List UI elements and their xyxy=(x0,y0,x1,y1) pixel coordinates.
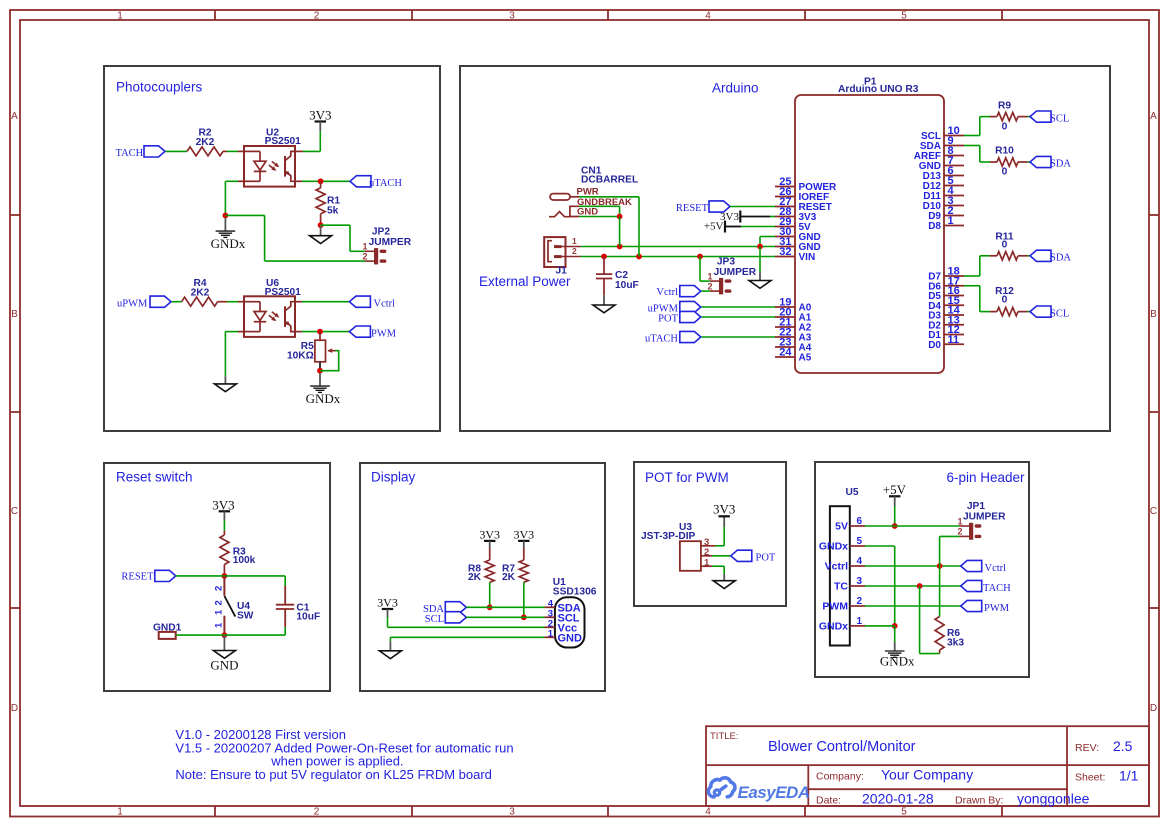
svg-text:1: 1 xyxy=(572,236,577,246)
svg-text:10KΩ: 10KΩ xyxy=(287,351,314,362)
svg-text:U5: U5 xyxy=(846,487,859,498)
svg-text:Reset switch: Reset switch xyxy=(116,470,193,485)
svg-text:0: 0 xyxy=(1002,167,1008,178)
svg-text:2: 2 xyxy=(314,11,320,22)
svg-text:1: 1 xyxy=(957,516,962,526)
svg-text:SDA: SDA xyxy=(1050,159,1071,170)
svg-text:0: 0 xyxy=(1002,121,1008,132)
svg-text:RESET: RESET xyxy=(121,571,154,582)
svg-text:JUMPER: JUMPER xyxy=(963,512,1006,523)
svg-text:Note: Ensure to put 5V regulat: Note: Ensure to put 5V regulator on KL25… xyxy=(175,767,492,782)
svg-text:PS2501: PS2501 xyxy=(265,136,302,147)
svg-text:2020-01-28: 2020-01-28 xyxy=(862,791,934,807)
svg-text:A5: A5 xyxy=(799,353,812,364)
svg-text:1: 1 xyxy=(117,11,123,22)
svg-text:+5V: +5V xyxy=(704,221,724,233)
svg-text:JST-3P-DIP: JST-3P-DIP xyxy=(641,531,696,542)
svg-text:DCBARREL: DCBARREL xyxy=(581,175,638,186)
svg-text:3V3: 3V3 xyxy=(713,502,735,517)
svg-text:10uF: 10uF xyxy=(296,611,320,622)
svg-text:TC: TC xyxy=(834,581,848,593)
svg-text:POT: POT xyxy=(658,314,678,325)
svg-text:GNDx: GNDx xyxy=(211,236,246,251)
svg-text:PS2501: PS2501 xyxy=(265,287,302,298)
svg-text:GND: GND xyxy=(210,658,238,673)
svg-text:4: 4 xyxy=(705,807,711,818)
svg-text:0: 0 xyxy=(1002,240,1008,251)
svg-text:3V3: 3V3 xyxy=(479,528,500,542)
svg-text:Sheet:: Sheet: xyxy=(1075,771,1105,783)
svg-text:D8: D8 xyxy=(928,221,941,232)
svg-text:uTACH: uTACH xyxy=(369,178,402,189)
svg-text:3k3: 3k3 xyxy=(947,638,964,649)
svg-text:1: 1 xyxy=(948,215,954,227)
svg-text:+5V: +5V xyxy=(883,482,907,497)
svg-text:2K2: 2K2 xyxy=(191,288,210,299)
svg-text:uPWM: uPWM xyxy=(117,298,148,309)
svg-text:GNDx: GNDx xyxy=(880,654,915,669)
svg-text:2K2: 2K2 xyxy=(196,137,215,148)
svg-text:D: D xyxy=(11,703,18,714)
svg-text:SCL: SCL xyxy=(425,614,444,625)
svg-text:EasyEDA: EasyEDA xyxy=(738,783,810,802)
svg-text:5: 5 xyxy=(901,11,907,22)
svg-text:1: 1 xyxy=(707,272,712,282)
svg-text:RESET: RESET xyxy=(676,203,709,214)
svg-text:A: A xyxy=(11,111,18,122)
svg-text:B: B xyxy=(1150,309,1157,320)
svg-text:2: 2 xyxy=(957,527,962,537)
svg-text:D: D xyxy=(1150,703,1157,714)
svg-text:PWM: PWM xyxy=(822,601,848,613)
svg-text:24: 24 xyxy=(779,347,792,359)
svg-text:3: 3 xyxy=(509,11,515,22)
svg-text:1: 1 xyxy=(117,807,123,818)
svg-text:5: 5 xyxy=(857,536,863,547)
svg-text:3: 3 xyxy=(509,807,515,818)
svg-text:SCL: SCL xyxy=(1050,308,1069,319)
svg-text:Arduino: Arduino xyxy=(712,81,759,96)
svg-text:3V3: 3V3 xyxy=(513,528,534,542)
svg-text:Company:: Company: xyxy=(816,770,864,782)
svg-text:1: 1 xyxy=(362,242,367,252)
svg-text:SSD1306: SSD1306 xyxy=(553,586,597,597)
svg-text:2K: 2K xyxy=(502,572,516,583)
svg-text:1/1: 1/1 xyxy=(1119,768,1139,784)
svg-text:GNDx: GNDx xyxy=(306,391,341,406)
svg-text:2: 2 xyxy=(704,547,709,558)
svg-text:1: 1 xyxy=(704,557,710,568)
svg-text:10uF: 10uF xyxy=(615,280,639,291)
svg-text:Display: Display xyxy=(371,470,416,485)
svg-text:GNDx: GNDx xyxy=(819,620,848,632)
svg-text:2.5: 2.5 xyxy=(1113,738,1133,754)
svg-text:Drawn By:: Drawn By: xyxy=(955,794,1003,806)
svg-text:Your Company: Your Company xyxy=(881,767,973,783)
svg-text:GND: GND xyxy=(558,632,583,644)
svg-text:TACH: TACH xyxy=(116,148,144,159)
svg-text:JUMPER: JUMPER xyxy=(714,267,757,278)
svg-text:100k: 100k xyxy=(233,555,256,566)
svg-text:B: B xyxy=(11,309,18,320)
svg-text:Date:: Date: xyxy=(816,794,841,806)
svg-text:uTACH: uTACH xyxy=(645,334,678,345)
svg-text:1: 1 xyxy=(857,616,863,627)
svg-text:2: 2 xyxy=(707,281,712,291)
svg-text:Vctrl: Vctrl xyxy=(985,563,1007,574)
svg-text:5k: 5k xyxy=(327,205,339,216)
svg-text:A: A xyxy=(1150,111,1157,122)
svg-text:3: 3 xyxy=(857,576,863,587)
svg-text:PWM: PWM xyxy=(371,328,397,339)
svg-text:SW: SW xyxy=(237,611,254,622)
svg-text:POT: POT xyxy=(756,553,776,564)
svg-text:External Power: External Power xyxy=(479,274,571,289)
svg-text:1: 1 xyxy=(214,622,225,628)
svg-text:6: 6 xyxy=(857,516,863,527)
svg-text:Vctrl: Vctrl xyxy=(656,287,678,298)
svg-text:1: 1 xyxy=(214,609,225,615)
svg-text:PWR: PWR xyxy=(577,186,599,197)
svg-text:JUMPER: JUMPER xyxy=(369,237,412,248)
svg-text:3V3: 3V3 xyxy=(377,596,398,610)
svg-text:yonggonlee: yonggonlee xyxy=(1017,791,1090,807)
svg-text:5V: 5V xyxy=(835,521,848,533)
svg-text:GNDx: GNDx xyxy=(819,541,848,553)
svg-text:2: 2 xyxy=(214,586,225,591)
svg-text:4: 4 xyxy=(857,556,863,567)
svg-text:Blower Control/Monitor: Blower Control/Monitor xyxy=(768,739,916,755)
svg-text:TACH: TACH xyxy=(983,583,1011,594)
svg-text:Vctrl: Vctrl xyxy=(374,298,396,309)
svg-text:VIN: VIN xyxy=(799,252,816,263)
svg-text:SDA: SDA xyxy=(1050,253,1071,264)
svg-text:Arduino UNO R3: Arduino UNO R3 xyxy=(838,84,919,95)
svg-text:PWM: PWM xyxy=(984,603,1010,614)
svg-text:R9: R9 xyxy=(998,101,1011,112)
svg-text:TITLE:: TITLE: xyxy=(710,731,739,742)
svg-text:D0: D0 xyxy=(928,340,941,351)
svg-text:2: 2 xyxy=(857,596,863,607)
svg-text:POT for PWM: POT for PWM xyxy=(645,470,729,485)
svg-text:0: 0 xyxy=(1002,295,1008,306)
svg-text:6-pin Header: 6-pin Header xyxy=(947,470,1026,485)
svg-text:5: 5 xyxy=(901,807,907,818)
svg-text:3V3: 3V3 xyxy=(309,108,331,123)
svg-text:REV:: REV: xyxy=(1075,742,1099,754)
svg-text:32: 32 xyxy=(779,246,791,258)
svg-text:2: 2 xyxy=(214,600,225,605)
svg-text:C: C xyxy=(1150,506,1157,517)
svg-text:Vctrl: Vctrl xyxy=(825,561,848,573)
svg-text:2: 2 xyxy=(572,246,577,256)
svg-text:SCL: SCL xyxy=(1050,113,1069,124)
svg-text:2: 2 xyxy=(314,807,320,818)
svg-text:2K: 2K xyxy=(468,572,482,583)
svg-text:C: C xyxy=(11,506,18,517)
svg-text:1: 1 xyxy=(548,628,554,639)
svg-text:11: 11 xyxy=(948,334,960,346)
svg-text:R10: R10 xyxy=(995,145,1014,156)
svg-text:4: 4 xyxy=(705,11,711,22)
svg-text:2: 2 xyxy=(362,251,367,261)
svg-text:Photocouplers: Photocouplers xyxy=(116,80,203,95)
